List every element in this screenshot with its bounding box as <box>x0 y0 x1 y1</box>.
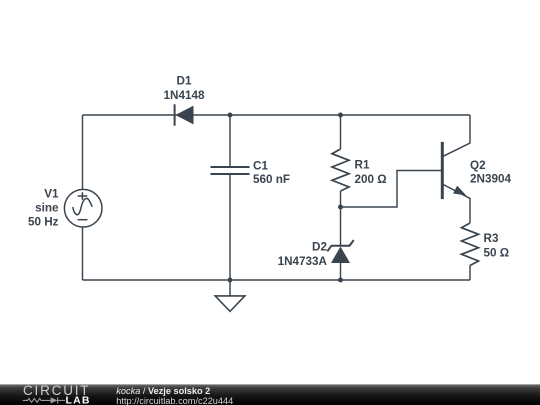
svg-text:R3: R3 <box>484 232 499 245</box>
svg-text:D1: D1 <box>177 75 192 88</box>
svg-text:200 Ω: 200 Ω <box>355 173 387 186</box>
svg-text:Q2: Q2 <box>470 159 486 172</box>
svg-text:D2: D2 <box>312 241 327 254</box>
svg-text:2N3904: 2N3904 <box>470 173 511 186</box>
svg-text:kocka / Vezje solsko 2: kocka / Vezje solsko 2 <box>116 386 210 396</box>
svg-text:http://circuitlab.com/c22u444: http://circuitlab.com/c22u444 <box>116 396 233 405</box>
svg-text:50 Ω: 50 Ω <box>484 246 510 259</box>
svg-text:sine: sine <box>35 202 59 215</box>
svg-text:V1: V1 <box>44 188 59 201</box>
svg-text:50 Hz: 50 Hz <box>28 216 59 229</box>
svg-text:560 nF: 560 nF <box>253 173 290 186</box>
svg-text:C1: C1 <box>253 160 268 173</box>
svg-text:1N4148: 1N4148 <box>164 89 205 102</box>
svg-text:1N4733A: 1N4733A <box>278 255 328 268</box>
svg-text:LAB: LAB <box>66 394 91 405</box>
svg-text:R1: R1 <box>355 159 370 172</box>
